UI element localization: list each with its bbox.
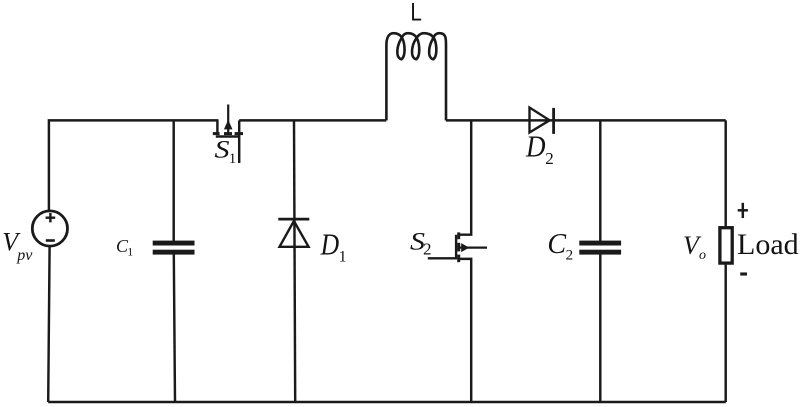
capacitor C2 bbox=[579, 241, 621, 255]
svg-text:D: D bbox=[320, 226, 339, 261]
wire C1 branch top bbox=[172, 120, 174, 241]
resistor Load bbox=[720, 228, 732, 263]
label S2 bbox=[410, 228, 432, 258]
wire S2 drain bbox=[459, 120, 472, 234]
wire top mid bbox=[239, 119, 386, 121]
svg-text:Load: Load bbox=[737, 228, 799, 261]
label S1 bbox=[215, 137, 237, 168]
svg-text:2: 2 bbox=[423, 239, 432, 258]
svg-text:pv: pv bbox=[16, 247, 33, 264]
svg-text:1: 1 bbox=[229, 151, 237, 167]
wire top right bbox=[446, 119, 726, 121]
svg-text:L: L bbox=[410, 0, 422, 27]
svg-text:o: o bbox=[699, 248, 706, 263]
label plus bbox=[738, 203, 748, 218]
wire bottom rail bbox=[48, 401, 726, 404]
svg-text:C: C bbox=[547, 229, 566, 260]
diode D1 bbox=[278, 219, 309, 247]
transistor S1 bbox=[213, 105, 243, 164]
wire right rail bottom bbox=[724, 265, 726, 402]
svg-text:S: S bbox=[215, 137, 231, 164]
label D1 bbox=[320, 226, 347, 265]
svg-text:2: 2 bbox=[545, 149, 554, 168]
label minus bbox=[740, 272, 747, 275]
wire D1 branch bbox=[294, 120, 295, 402]
wire C2 branch top bbox=[599, 120, 601, 241]
wire right rail top bbox=[724, 120, 726, 226]
label D2 bbox=[525, 129, 554, 169]
capacitor C1 bbox=[153, 241, 195, 255]
wire S2 source bbox=[459, 259, 472, 402]
transistor S2 bbox=[428, 232, 487, 262]
wire C1 branch bottom bbox=[174, 254, 175, 402]
svg-text:1: 1 bbox=[127, 245, 133, 259]
label Vo bbox=[683, 231, 706, 263]
wire C2 branch bottom bbox=[599, 254, 601, 402]
label C1 bbox=[116, 236, 133, 258]
wire left rail bottom bbox=[48, 246, 49, 402]
source Vpv bbox=[32, 211, 67, 246]
label Vpv bbox=[2, 227, 33, 263]
svg-text:1: 1 bbox=[339, 248, 347, 265]
svg-text:2: 2 bbox=[566, 247, 574, 263]
inductor L bbox=[386, 33, 446, 120]
svg-text:D: D bbox=[525, 129, 545, 164]
diode D2 bbox=[530, 108, 554, 134]
wire top-left rail bbox=[49, 120, 218, 211]
label C2 bbox=[547, 229, 573, 263]
